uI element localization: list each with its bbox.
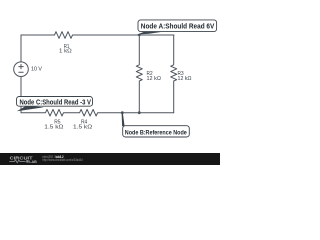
svg-text:12 kΩ: 12 kΩ [178,76,193,82]
svg-text:1 kΩ: 1 kΩ [59,49,72,55]
svg-text:Node B:Reference Node: Node B:Reference Node [125,129,187,136]
svg-text:http://www.circuitlab.com/c/53: http://www.circuitlab.com/c/53ad3d [42,158,82,162]
svg-text:Node C:Should Read -3 V: Node C:Should Read -3 V [20,99,92,106]
svg-text:12 kΩ: 12 kΩ [147,76,162,82]
svg-text:1.5 kΩ: 1.5 kΩ [73,125,93,131]
svg-text:10 V: 10 V [31,67,42,73]
svg-text:1.5 kΩ: 1.5 kΩ [44,125,64,131]
svg-text:Node A:Should Read 6V: Node A:Should Read 6V [141,23,215,30]
svg-text:LAB: LAB [29,160,37,164]
